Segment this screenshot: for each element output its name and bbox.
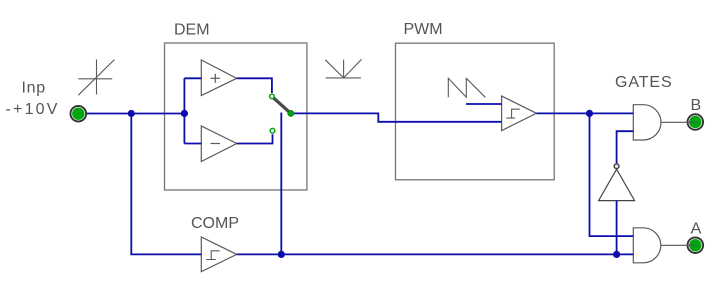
- terminal A: [688, 237, 704, 253]
- wire to gate A top input: [590, 113, 634, 236]
- node DEM input junction: [181, 110, 188, 117]
- wire COMP output: [237, 253, 634, 255]
- svg-text:GATES: GATES: [615, 74, 673, 91]
- node input junction: [128, 110, 135, 117]
- hysteresis glyph U3: [206, 251, 219, 260]
- DEM box: [165, 43, 307, 190]
- terminal B: [688, 114, 704, 130]
- comparator U3 COMP: [201, 237, 236, 272]
- wire gate A output: [661, 244, 695, 246]
- wire inverter input: [616, 201, 618, 255]
- inverter bubble: [614, 164, 619, 169]
- AND gate A: [633, 228, 660, 263]
- wire to amp inputs: [184, 78, 201, 143]
- wire input rail: [83, 113, 184, 115]
- switch bar: [272, 97, 290, 113]
- wire inverter output to gate B: [617, 131, 634, 164]
- inverter U6: [599, 169, 635, 200]
- sawtooth symbol: [448, 78, 485, 97]
- wire gate B output: [661, 121, 695, 123]
- wire DEM output: [291, 113, 502, 121]
- svg-text:-+10V: -+10V: [6, 101, 60, 118]
- node COMP control junction: [278, 251, 285, 258]
- fan symbol: [325, 59, 361, 78]
- wire -amp output: [237, 134, 273, 143]
- PWM box: [396, 43, 555, 180]
- svg-text:A: A: [691, 221, 702, 238]
- node inverter input junction: [613, 251, 620, 258]
- svg-text:B: B: [691, 97, 702, 114]
- op-amp U1b (-): [201, 126, 236, 162]
- svg-text:COMP: COMP: [191, 215, 239, 232]
- svg-text:PWM: PWM: [404, 21, 443, 38]
- transfer characteristic symbol: [78, 60, 114, 96]
- comparator U2: [502, 96, 537, 131]
- hysteresis glyph U2: [506, 109, 520, 118]
- svg-text:Inp: Inp: [22, 80, 46, 97]
- svg-text:DEM: DEM: [174, 22, 210, 39]
- op-amp U1a (+): [201, 60, 236, 96]
- wire PWM output rail: [536, 112, 633, 114]
- wire sawtooth to comparator: [466, 103, 502, 105]
- switch contact top: [270, 94, 275, 99]
- wire COMP input drop: [131, 114, 201, 255]
- switch control wire: [280, 113, 282, 255]
- input terminal Inp: [71, 106, 87, 122]
- switch common node: [288, 110, 294, 116]
- node PWM output junction: [586, 110, 593, 117]
- wire +amp output: [237, 78, 272, 93]
- switch contact bottom: [270, 128, 275, 133]
- AND gate B: [633, 105, 661, 140]
